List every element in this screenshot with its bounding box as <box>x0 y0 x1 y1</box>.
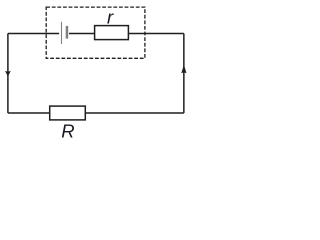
svg-text:r: r <box>107 6 114 27</box>
svg-text:R: R <box>61 120 74 141</box>
